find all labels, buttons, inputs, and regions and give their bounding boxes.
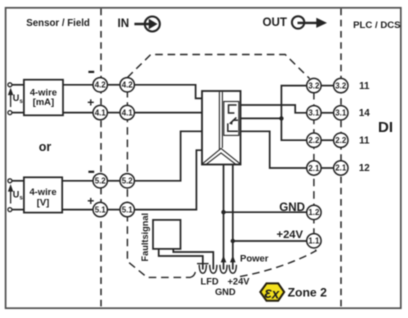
- svg-text:1.1: 1.1: [308, 237, 320, 246]
- svg-text:2.2: 2.2: [335, 136, 347, 145]
- svg-text:+: +: [87, 95, 94, 109]
- svg-text:3.2: 3.2: [335, 81, 347, 90]
- svg-text:LFD: LFD: [201, 276, 219, 286]
- svg-text:or: or: [39, 140, 52, 154]
- svg-text:OUT: OUT: [263, 16, 287, 29]
- svg-text:2.2: 2.2: [308, 136, 320, 145]
- svg-text:4.2: 4.2: [122, 81, 134, 90]
- svg-text:11: 11: [359, 135, 370, 146]
- svg-text:4-wire: 4-wire: [29, 186, 56, 197]
- svg-text:5.2: 5.2: [95, 177, 107, 186]
- svg-text:IN: IN: [118, 17, 130, 30]
- svg-text:s: s: [19, 194, 23, 201]
- svg-text:4.1: 4.1: [122, 109, 134, 118]
- svg-text:5.1: 5.1: [122, 205, 134, 214]
- svg-text:GND: GND: [279, 201, 305, 214]
- svg-text:Zone 2: Zone 2: [288, 286, 327, 300]
- svg-text:Sensor / Field: Sensor / Field: [26, 18, 90, 29]
- svg-text:4.1: 4.1: [95, 109, 107, 118]
- svg-text:2.1: 2.1: [335, 164, 347, 173]
- svg-text:GND: GND: [215, 287, 236, 297]
- svg-text:5.1: 5.1: [95, 205, 107, 214]
- svg-text:DI: DI: [378, 119, 393, 136]
- svg-text:2.1: 2.1: [308, 164, 320, 173]
- svg-text:PLC / DCS: PLC / DCS: [353, 20, 401, 31]
- svg-text:U: U: [13, 189, 19, 199]
- svg-text:11: 11: [359, 81, 370, 92]
- svg-text:U: U: [13, 93, 19, 103]
- svg-text:[V]: [V]: [37, 196, 50, 207]
- svg-text:14: 14: [359, 108, 370, 119]
- svg-text:s: s: [19, 98, 23, 105]
- svg-text:x: x: [271, 286, 280, 301]
- svg-text:1.2: 1.2: [308, 208, 320, 217]
- svg-text:12: 12: [359, 163, 370, 174]
- svg-text:3.2: 3.2: [308, 81, 320, 90]
- svg-text:4.2: 4.2: [95, 81, 107, 90]
- svg-text:+: +: [87, 194, 94, 208]
- svg-text:5.2: 5.2: [122, 177, 134, 186]
- svg-text:+24V: +24V: [228, 277, 251, 287]
- svg-text:3.1: 3.1: [308, 109, 320, 118]
- svg-text:Faultsignal: Faultsignal: [140, 213, 150, 262]
- svg-text:[mA]: [mA]: [33, 96, 54, 107]
- svg-text:3.1: 3.1: [335, 109, 347, 118]
- svg-text:Power: Power: [240, 254, 269, 265]
- svg-text:+24V: +24V: [277, 229, 304, 241]
